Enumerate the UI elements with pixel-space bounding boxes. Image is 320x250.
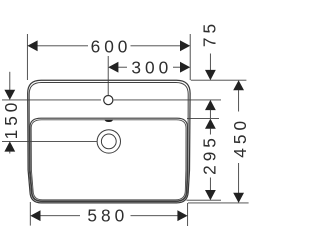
top edge right extension	[191, 79, 247, 81]
dim 300 right arrow	[180, 62, 190, 73]
dim 295 bottom arrow (tip at inner bottom edge)	[205, 190, 216, 200]
dim 300 line	[118, 66, 128, 68]
dim 600 left arrow	[27, 40, 37, 51]
centerline above tap hole	[107, 56, 109, 95]
overflow slot	[105, 120, 114, 122]
dim 150 tail line	[9, 151, 11, 153]
outer bottom edge right extension	[188, 202, 249, 204]
drain outer circle	[97, 130, 120, 153]
extension line right top	[189, 34, 191, 80]
dim 75 up arrow (tip at hole level)	[205, 100, 216, 110]
bottom left extension	[29, 202, 31, 226]
tap hole level line left part	[2, 99, 101, 101]
dim 580 right arrow	[177, 210, 187, 221]
dim 75 tail line	[209, 110, 211, 119]
dim 150 down arrow (tip at hole level)	[4, 90, 15, 100]
basin outer outline	[28, 80, 190, 203]
inner top edge right extension	[187, 118, 219, 120]
dim 450 upper line	[238, 90, 240, 112]
drain level line	[2, 140, 97, 142]
svg-text:600: 600	[91, 36, 132, 56]
drain inner circle	[101, 134, 116, 149]
dim 600 line	[37, 45, 88, 47]
svg-text:300: 300	[131, 58, 172, 78]
inner bowl second line	[31, 120, 186, 200]
inner bottom edge right extension	[187, 199, 222, 201]
inner bowl outline	[30, 118, 187, 201]
dim 295 lower line	[209, 178, 211, 191]
dim 580 line	[40, 215, 80, 217]
dim 295 upper line	[209, 128, 211, 134]
dim 295 top arrow (tip at inner top edge)	[205, 119, 216, 129]
svg-text:580: 580	[87, 206, 128, 226]
svg-text:450: 450	[230, 117, 250, 158]
dim 150 up arrow (tip at drain level)	[4, 141, 15, 151]
basin rim inner offset line	[29, 83, 188, 202]
bottom right extension	[187, 203, 189, 226]
dim 75 upper line	[209, 54, 211, 71]
svg-text:295: 295	[200, 134, 220, 175]
dim 450 top arrow (tip at top edge extension)	[233, 80, 244, 90]
tap hole	[104, 96, 113, 105]
dim 450 bottom arrow (tip at bottom edge extension)	[233, 193, 244, 203]
dim 150 upper line	[9, 72, 11, 90]
dim 75 down arrow (tip at basin top edge)	[205, 70, 216, 80]
dim 450 lower line	[238, 163, 240, 193]
dim 580 left arrow	[30, 210, 40, 221]
extension line left top	[26, 34, 28, 80]
svg-text:75: 75	[200, 20, 220, 47]
dim 300 left arrow	[108, 62, 118, 73]
dim 600 right arrow	[180, 40, 190, 51]
svg-text:150: 150	[1, 99, 21, 140]
tap hole level line right part	[114, 99, 221, 101]
